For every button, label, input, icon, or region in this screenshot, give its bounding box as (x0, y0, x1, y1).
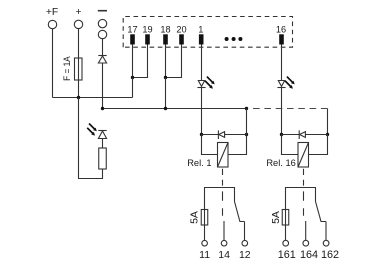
LED power indicator arrows (87, 124, 95, 134)
wire +F down (52, 29, 54, 98)
wire node A to plus bus (132, 78, 134, 98)
node flyback left Rel1 (200, 133, 203, 136)
node minus-column junction (101, 107, 104, 110)
flyback diode D16 wires (282, 134, 328, 136)
svg-text:11: 11 (199, 249, 210, 261)
wire diode to minus bus (102, 63, 104, 109)
wire NO stub terminal 164 (305, 221, 307, 240)
node flyback right Rel16 (326, 133, 329, 136)
terminal circle 161 (283, 240, 289, 246)
terminal pin 17 (130, 34, 135, 44)
fuse F1 body (75, 58, 83, 80)
dashed terminal strip box (123, 17, 292, 48)
contact top bar Rel1 (205, 188, 235, 210)
svg-text:20: 20 (176, 25, 186, 35)
terminal circle 162 (323, 240, 329, 246)
LED1 light arrows (205, 77, 213, 87)
ellipsis dots (225, 37, 229, 41)
wire minus down (102, 39, 104, 56)
resistor R1 (99, 148, 107, 169)
relay coil Rel16 diagonal (298, 143, 309, 168)
fuse F1 internal wire (78, 58, 80, 80)
svg-text:18: 18 (160, 25, 170, 35)
wire 18 down (165, 45, 167, 78)
LED1 cathode bar (197, 87, 205, 89)
svg-text:164: 164 (300, 249, 318, 261)
flyback diode D1 cathode bar (217, 130, 219, 139)
node fuse-bus junction (77, 96, 80, 99)
terminal circle 12 (242, 240, 248, 246)
svg-text:14: 14 (218, 249, 230, 261)
flyback diode D1 triangle (219, 132, 225, 138)
node flyback right Rel1 (245, 133, 248, 136)
terminal pin 20 (179, 34, 184, 44)
terminal pin 1 (199, 34, 204, 44)
LED1 wire crossing minus bus (201, 88, 203, 135)
diode V1 triangle (98, 56, 106, 63)
terminal circle + (74, 20, 82, 28)
svg-text:12: 12 (239, 249, 251, 261)
svg-text:16: 16 (276, 25, 286, 35)
terminal pin 19 (145, 34, 150, 44)
wire NO stub terminal 14 (223, 221, 225, 240)
LED16 light arrows (285, 77, 293, 87)
svg-text:1: 1 (198, 25, 203, 35)
terminal pin 18 (163, 34, 168, 44)
wire 19 down and left to node A (133, 45, 148, 78)
wire 1 down to LED1 (201, 45, 203, 81)
flyback diode D1 wires (202, 134, 247, 136)
terminal circle 11 (202, 240, 208, 246)
terminal pin 16 (279, 34, 284, 44)
diode V1 cathode bar (98, 55, 106, 57)
wire + to fuse (78, 29, 80, 58)
contact top bar Rel16 (286, 188, 316, 210)
LED16 triangle (278, 81, 284, 87)
wire Rel1 right vertical (246, 109, 248, 135)
fuse 5A Rel1 internal wire (204, 210, 206, 226)
wire fuse to terminal 161 (285, 225, 287, 240)
wire 17 down (132, 45, 134, 78)
relay coil Rel1 diagonal (218, 143, 229, 168)
wire 20 down and left to node B (166, 45, 182, 78)
terminal circle minus upper (98, 19, 106, 27)
wire Rel1 coil left lead (202, 135, 218, 155)
svg-text:Rel. 16: Rel. 16 (266, 158, 295, 168)
fuse 5A Rel16 internal wire (285, 210, 287, 226)
LED16 wire crossing (281, 88, 283, 135)
wire Rel16 coil left lead (282, 135, 299, 155)
svg-text:F = 1A: F = 1A (62, 56, 72, 81)
svg-text:161: 161 (278, 249, 296, 261)
wire node B to minus bus (165, 78, 167, 109)
svg-text:19: 19 (142, 25, 152, 35)
wire resistor to return loop (79, 98, 103, 179)
wire LED to resistor (102, 139, 104, 149)
mechanical link Rel16 dashed (303, 169, 305, 216)
fuse 5A Rel1 body (201, 210, 208, 226)
svg-text:162: 162 (321, 249, 339, 261)
contact blade Rel16 (316, 202, 327, 222)
LED1 triangle (198, 81, 204, 87)
terminal circle 14 (221, 240, 227, 246)
node 18-20 bus junction (164, 107, 167, 110)
node minus bus to Rel1 (245, 107, 248, 110)
svg-text:+: + (75, 7, 81, 18)
node flyback left Rel16 (280, 133, 283, 136)
LED16 cathode bar (277, 87, 285, 89)
plus bus wire (53, 97, 133, 99)
svg-text:5A: 5A (190, 211, 201, 224)
flyback diode D16 cathode bar (298, 130, 300, 139)
node A junction 17-19 (131, 76, 134, 79)
svg-text:Rel. 1: Rel. 1 (187, 158, 211, 168)
terminal circle 164 (303, 240, 309, 246)
wire fuse to bus (78, 80, 80, 98)
label minus (98, 10, 107, 12)
wire Rel1 coil right lead (228, 135, 247, 155)
wire Rel16 coil right lead (309, 135, 328, 155)
wire fuse to terminal 11 (204, 225, 206, 240)
minus bus wire (103, 108, 247, 110)
terminal circle minus lower (98, 30, 106, 38)
svg-text:17: 17 (127, 25, 137, 35)
svg-text:5A: 5A (271, 211, 282, 224)
relay coil Rel1 box (218, 143, 229, 168)
relay coil Rel16 box (298, 143, 309, 168)
flyback diode D16 triangle (300, 132, 306, 138)
LED power indicator cathode bar (98, 130, 106, 132)
fuse 5A Rel16 body (282, 210, 289, 226)
LED power indicator triangle (98, 131, 106, 139)
wire blade to terminal 162 (325, 222, 327, 241)
contact blade Rel1 (235, 202, 245, 222)
terminal circle +F (48, 20, 56, 28)
wire dashed bus corner down to Rel16 (327, 109, 329, 135)
mechanical link Rel1 dashed (222, 169, 224, 216)
wire 16 down to LED16 (281, 45, 283, 81)
svg-text:+F: +F (46, 7, 58, 18)
dashed minus bus continuation (249, 108, 328, 110)
node B junction 18-20 (164, 76, 167, 79)
wire blade to terminal 12 (244, 222, 246, 241)
